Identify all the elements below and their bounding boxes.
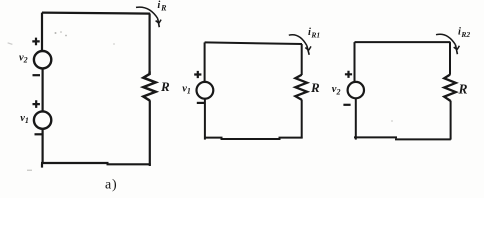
svg-text:v2: v2 bbox=[332, 84, 341, 97]
svg-text:v2: v2 bbox=[19, 52, 28, 64]
svg-text:iR1: iR1 bbox=[308, 27, 320, 40]
svg-text:iR2: iR2 bbox=[458, 27, 470, 40]
svg-text:iR: iR bbox=[157, 0, 167, 12]
svg-text:a): a) bbox=[105, 177, 117, 192]
svg-text:v1: v1 bbox=[182, 83, 191, 95]
svg-text:R: R bbox=[160, 79, 170, 94]
svg-text:v1: v1 bbox=[20, 113, 29, 125]
svg-text:R: R bbox=[458, 82, 468, 97]
svg-text:R: R bbox=[310, 80, 320, 95]
